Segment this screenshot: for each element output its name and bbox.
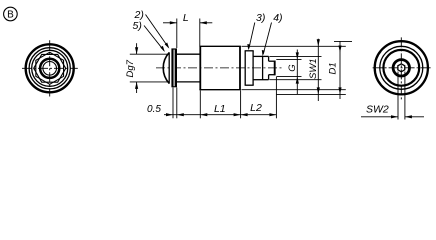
svg-text:Dg7: Dg7 [125, 59, 136, 77]
leader line 4 [263, 23, 271, 55]
hex section top edge [253, 55, 269, 57]
dimension L arrow left [170, 21, 177, 24]
collar left edge [244, 51, 246, 85]
dimension D1 arrow bottom [338, 87, 341, 94]
dimension Dg7 arrow bottom [135, 82, 138, 89]
collar right edge [252, 51, 254, 85]
flange split line [173, 50, 175, 87]
svg-text:L2: L2 [250, 102, 262, 114]
body bottom edge [199, 89, 241, 91]
extension line hex bottom right [270, 79, 322, 81]
dimension SW2 line right tail [405, 116, 424, 118]
view label B circle [4, 7, 18, 21]
hex section bottom edge [253, 79, 269, 81]
svg-text:4): 4) [273, 12, 282, 24]
dimension L extension line left [176, 19, 178, 49]
neck bottom edge [177, 81, 200, 83]
leader line 2 [146, 15, 169, 48]
dimension L arrow right [200, 21, 207, 24]
extension line circle bottom common [276, 93, 346, 95]
body top edge [199, 45, 241, 47]
dimension L2 arrow right [269, 113, 276, 116]
dimension G arrow top [296, 52, 299, 59]
body left edge [199, 46, 201, 89]
right view outer circle [375, 41, 428, 94]
svg-text:B: B [7, 10, 14, 21]
right view socket boss circle [393, 60, 409, 76]
left view circle 3 [32, 50, 68, 86]
dimension L line left tail [163, 22, 177, 24]
right view hex socket [398, 64, 405, 72]
leader arrow 4 [262, 50, 265, 56]
dimension SW2 arrow left [391, 115, 398, 118]
dimension D1 arrow top [338, 46, 341, 53]
svg-text:SW2: SW2 [366, 104, 389, 116]
dimension D1 line [339, 41, 341, 99]
dimension SW2 extension line left [397, 72, 399, 120]
left view crosshair vertical [49, 40, 51, 96]
hex section internal edge [262, 56, 264, 79]
dimension SW1 line [317, 39, 319, 101]
extension line thread bottom right [276, 76, 301, 78]
svg-text:5): 5) [133, 20, 142, 32]
left view outer circle [26, 44, 74, 92]
bottom extension line flange left [172, 88, 174, 119]
svg-text:SW1: SW1 [308, 58, 319, 79]
dimension Dg7 line top tail [136, 43, 138, 54]
dimension L extension line right [199, 19, 201, 46]
dimension L1 arrow right [234, 113, 241, 116]
hex section right step upper [268, 56, 270, 61]
right view crosshair vertical [400, 37, 402, 99]
extension line hex top right [270, 55, 322, 57]
leader arrow 2 [165, 43, 170, 49]
leader arrow 3 [247, 44, 250, 50]
dimension SW2 extension line right [404, 72, 406, 120]
right view crosshair horizontal [373, 67, 432, 69]
bottom extension line body right [240, 91, 242, 119]
left view circle 2 [29, 48, 70, 89]
hex section right step lower [268, 75, 270, 80]
svg-text:D1: D1 [328, 62, 339, 74]
neck top edge [177, 53, 200, 55]
svg-text:3): 3) [256, 12, 265, 24]
left view innermost circle [43, 62, 57, 76]
svg-text:L: L [183, 12, 189, 24]
stud top edge [269, 60, 276, 62]
dimension Dg7 arrow top [135, 47, 138, 54]
flange body [171, 48, 177, 87]
bottom extension line stud end [275, 77, 277, 118]
leader arrow 5 [160, 46, 165, 52]
bottom dimension line [164, 114, 276, 116]
dimension G line [296, 50, 298, 95]
svg-text:0.5: 0.5 [147, 104, 161, 115]
svg-text:L1: L1 [214, 103, 226, 115]
extension line body top right [242, 45, 346, 47]
extension line body bottom right [242, 89, 346, 91]
left view inner thick circle [40, 59, 59, 78]
collar top edge [245, 50, 254, 52]
dimension SW2 line left tail [361, 116, 398, 118]
dimension L1 arrow left [200, 113, 207, 116]
ball chord edge [168, 52, 170, 83]
ball end arc [163, 53, 169, 84]
bottom extension line body left [199, 91, 201, 119]
stud end edge [274, 61, 276, 75]
body right edge [239, 46, 241, 89]
dimension Dg7 extension line bottom [130, 81, 168, 83]
dimension SW1 arrow bottom [317, 87, 320, 94]
centerline of part [156, 67, 284, 69]
left view hexagon 2 [36, 52, 64, 84]
stud bottom edge [269, 74, 276, 76]
leader line 5 [144, 26, 164, 51]
dimension SW1 arrow top [317, 39, 320, 46]
leader line 3 [249, 23, 255, 49]
dimension 0.5 arrow right [177, 113, 184, 116]
svg-text:G: G [287, 64, 298, 71]
extension line circle top right [334, 40, 352, 42]
bottom extension line flange right [176, 88, 178, 119]
right view circle 3 [383, 50, 419, 86]
dimension Dg7 line bottom tail [136, 82, 138, 93]
dimension L line right tail [200, 22, 213, 24]
dimension L2 arrow left [241, 113, 248, 116]
right view circle 2 [380, 46, 423, 89]
extension line thread top right [276, 58, 301, 60]
collar bottom edge [245, 84, 254, 86]
left view crosshair horizontal [22, 67, 78, 69]
dimension SW2 arrow right [405, 115, 412, 118]
dimension Dg7 extension line top [130, 53, 168, 55]
dimension G arrow bottom [296, 77, 299, 84]
dimension 0.5 arrow left [166, 113, 173, 116]
left view hexagon 1 [34, 54, 66, 82]
